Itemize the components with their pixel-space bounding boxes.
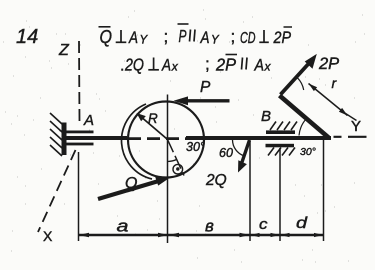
svg-text:a: a [117,217,129,236]
svg-text:30°: 30° [300,146,316,158]
perp mark at C [297,78,303,90]
support B upper bar [266,130,295,134]
perpendicular symbol 3 [148,58,159,70]
force 2Q arrow shaft [241,140,250,167]
30 deg dashed radius line [168,140,185,176]
svg-text:P: P [200,79,211,96]
svg-text:c: c [259,217,268,233]
radius R arrow [140,116,168,140]
beam right segment [186,136,331,140]
support B lower hatching [268,148,295,156]
svg-text:2P: 2P [215,55,236,75]
svg-text:2P: 2P [318,55,339,73]
svg-text:.: . [120,58,124,75]
svg-text:Y: Y [351,118,361,135]
svg-text:Q: Q [125,175,137,192]
svg-text:Y: Y [140,35,149,47]
Z axis dashed line [78,41,81,122]
svg-text:Z: Z [58,42,70,59]
small pin circle at Q application [173,164,183,174]
svg-text:;: ; [231,27,236,46]
svg-text:2Q: 2Q [124,55,144,75]
svg-text:2P: 2P [273,28,292,47]
extension line at B [279,148,281,241]
svg-text:CD: CD [240,30,256,47]
r extension tick near Y [344,113,357,121]
support B lower bar [266,144,295,148]
extension line at D [323,139,325,241]
svg-text:Y: Y [211,35,220,47]
P bar [178,23,189,25]
svg-text:A: A [161,56,171,75]
wall bar at A [62,123,67,156]
parallel symbol 1 [190,30,196,42]
formula line 1: Q bar [99,26,111,28]
extension line at 2Q [249,141,251,241]
Y axis dashes [334,136,367,138]
force Q arrowhead [155,176,171,186]
pin dot [176,167,179,170]
svg-text:2Q: 2Q [205,172,227,189]
force P arrowhead [174,96,189,105]
30 deg arc at pulley [168,159,177,161]
support A sleeve upper bar [67,131,94,134]
svg-text:P: P [179,26,187,46]
dim arrows c [250,233,260,237]
force 2P arrowhead [305,54,317,69]
force 2Q arrowhead [238,160,247,172]
60 deg arc [233,140,244,156]
pulley outer crescent arc [122,104,152,179]
support A sleeve lower bar [67,143,94,146]
svg-text:B: B [261,108,271,125]
extension line at A [78,152,80,241]
svg-text:;: ; [164,27,169,46]
dimension line [79,234,324,236]
30 deg arc at D [299,119,307,136]
wall hatching at A [50,113,62,156]
svg-text:Q: Q [100,27,113,47]
svg-text:d: d [296,215,308,232]
svg-text:30°: 30° [186,140,205,154]
force 2P arrow shaft [281,61,312,95]
svg-text:в: в [205,217,214,236]
svg-text:x: x [264,60,272,74]
svg-text:;: ; [205,55,210,74]
pulley vertical centerline [167,95,169,244]
svg-text:A: A [128,28,138,47]
dim arrows a [79,233,90,237]
crank CD [280,96,329,138]
svg-text:60: 60 [219,146,233,160]
pulley circle [128,102,204,178]
r dimension arrow [309,84,348,116]
svg-text:A: A [200,28,210,47]
svg-text:R: R [148,111,158,126]
svg-text:14: 14 [16,26,38,48]
svg-text:X: X [43,228,53,244]
beam left segment [67,136,128,140]
2P bar [226,54,238,56]
perpendicular symbol 1 [116,30,127,42]
svg-text:A: A [254,56,264,75]
support B upper hatching [270,122,297,131]
force Q arrow shaft [98,180,162,199]
svg-text:A: A [83,112,94,129]
X axis dashed line [38,150,76,232]
parallel symbol 2 [242,58,248,70]
dim arrows b [169,233,180,237]
perpendicular symbol 2 [259,30,269,42]
force P arrow shaft [184,99,230,102]
svg-text:x: x [171,60,179,74]
beam dashed centerline through pulley [128,137,187,140]
dim arrows d [280,233,290,237]
